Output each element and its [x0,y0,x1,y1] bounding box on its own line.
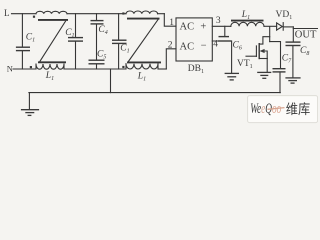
svg-text:N: N [7,63,13,73]
svg-text:维库: 维库 [286,102,311,117]
svg-text:3: 3 [216,16,221,26]
svg-text:−: − [201,40,207,51]
svg-text:2: 2 [168,40,173,50]
svg-text:1: 1 [169,18,174,28]
svg-text:+: + [200,22,206,33]
svg-text:OUT: OUT [295,29,317,40]
svg-text:L: L [4,8,10,18]
svg-text:AC: AC [180,22,195,33]
svg-text:4: 4 [213,40,218,50]
svg-text:AC: AC [180,41,195,52]
